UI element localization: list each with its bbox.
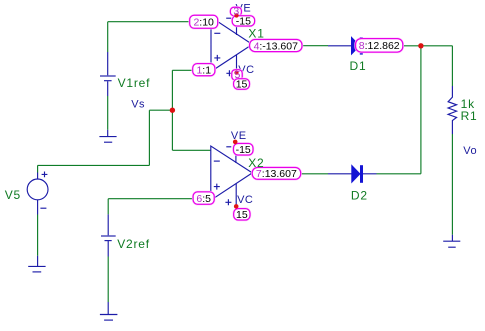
pin dot VC X2 (234, 204, 239, 209)
svg-text:D2: D2 (351, 188, 368, 202)
junction node Vs (170, 108, 175, 113)
bubble VC value 15 (X2) (234, 209, 250, 221)
bubble node 3 (230, 7, 241, 15)
battery V1ref (100, 52, 116, 96)
wire Vs up to X1 plus input (172, 70, 211, 110)
svg-text::13.607: :13.607 (262, 168, 297, 180)
svg-text::1: :1 (202, 64, 211, 76)
pin dot VC X1 (234, 71, 238, 75)
bubble node 7 voltage 13.607 (252, 168, 301, 181)
svg-text:V5: V5 (5, 188, 21, 202)
svg-text::12.862: :12.862 (365, 40, 400, 52)
bubble VE value -15 (X1) (232, 16, 254, 28)
wire V5 to Vs (38, 110, 150, 172)
svg-text:X2: X2 (248, 156, 264, 170)
wire junction down to D2 (377, 46, 421, 174)
svg-text::5: :5 (202, 193, 211, 205)
bubble node 4 voltage -13.607 (250, 40, 302, 53)
diode D2 (328, 165, 377, 183)
resistor R1 (448, 86, 457, 134)
svg-text:VE: VE (231, 130, 247, 142)
wire junction to R1 top (421, 46, 453, 86)
wire V1ref top to X1 minus input (108, 22, 211, 52)
bubble node 5 (232, 70, 242, 80)
svg-text::10: :10 (199, 16, 214, 28)
svg-text:15: 15 (236, 209, 248, 221)
op-amp X2 (211, 142, 253, 206)
battery V2ref (101, 214, 116, 256)
junction node output (418, 43, 423, 48)
wire Vs down to X2 minus input (172, 110, 211, 150)
wire X1 output to D1 (252, 45, 328, 47)
bubble VE value -15 (X2) (234, 144, 254, 157)
wire D1 to junction (377, 45, 421, 47)
svg-text:Vo: Vo (463, 145, 477, 157)
wire V2ref bottom to ground (107, 257, 109, 303)
wire X2 output to D2 (252, 173, 328, 175)
ground below V1ref (99, 130, 116, 142)
svg-text:-15: -15 (236, 144, 251, 156)
svg-text:V1ref: V1ref (118, 76, 151, 90)
svg-text:R1: R1 (461, 109, 478, 123)
bubble node 6 voltage 5 (193, 192, 214, 205)
op-amp X1 (211, 15, 252, 76)
wire V5 bottom to ground (37, 215, 39, 256)
wire V1ref bottom to ground (107, 96, 109, 130)
svg-text:V2ref: V2ref (117, 237, 150, 251)
wire R1 bottom to ground (451, 134, 453, 235)
ground below V5 (28, 256, 45, 272)
svg-text:Vs: Vs (131, 99, 145, 111)
source V5 (27, 172, 48, 215)
wire Vs node horizontal (149, 109, 172, 111)
bubble node 8 voltage 12.862 (356, 39, 403, 53)
ground below V2ref (100, 302, 118, 320)
pin dot VE X1 (234, 13, 238, 17)
wire V2ref to X2 plus input (108, 199, 211, 215)
svg-text:3: 3 (233, 5, 239, 17)
svg-text:X1: X1 (248, 27, 264, 41)
pin dot VE X2 (233, 140, 238, 145)
ground below R1 (443, 235, 460, 247)
svg-text:5: 5 (235, 69, 241, 81)
diode D1 (328, 37, 377, 55)
bubble node 2 voltage 10 (190, 15, 218, 28)
svg-text:VC: VC (237, 194, 253, 206)
bubble VC value 15 (X1) (234, 79, 250, 91)
svg-text:D1: D1 (350, 59, 367, 73)
svg-text::-13.607: :-13.607 (259, 40, 298, 52)
bubble node 1 voltage 1 (193, 64, 215, 77)
